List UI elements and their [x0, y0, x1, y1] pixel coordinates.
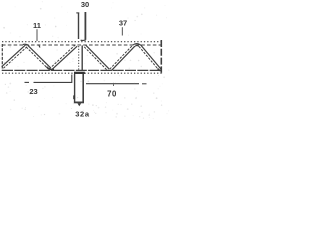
leader line for 37: [121, 27, 123, 35]
center bearing plate: [74, 72, 85, 74]
center vertical member solid edge: [81, 45, 83, 70]
bottom node blob: [47, 67, 55, 70]
leader line for 70: [86, 83, 139, 85]
load ram 30 right bar: [84, 12, 86, 40]
left end post: [1, 44, 3, 71]
left apex connector: [23, 44, 29, 45]
diagonal W2 falling from left apex (double line): [28, 45, 50, 67]
diagonal D3 (double line): [51, 46, 77, 70]
top chord dotted line: [2, 41, 161, 43]
leader tick for 11 below chord: [39, 45, 41, 48]
support rod 32a bottom edge: [74, 101, 84, 103]
svg-text:37: 37: [119, 19, 127, 28]
svg-text:11: 11: [33, 21, 41, 30]
leader tick for 70: [113, 84, 115, 86]
leader line for 23 main: [34, 75, 72, 83]
load ram 30 left bar: [78, 13, 80, 40]
scan speckle noise: [0, 1, 169, 119]
leader line for 70 end dash: [142, 83, 147, 85]
bottom right junction blob: [158, 69, 162, 71]
support rod 32a left edge: [74, 74, 76, 103]
diagonal D5 (double line): [111, 46, 135, 70]
load ram 30 bottom hook: [81, 39, 86, 42]
leader line for 11: [36, 29, 38, 41]
support rod 32a right edge: [82, 74, 84, 103]
support rod 32a bottom point: [77, 103, 81, 106]
diagonal D4 (double line): [86, 45, 109, 69]
bottom chord solid line: [2, 69, 161, 71]
bottom chord dotted line: [2, 72, 162, 74]
support rod 32a left bump: [73, 95, 75, 99]
center vertical member dotted edge: [78, 46, 80, 70]
top chord dashed line: [2, 44, 161, 46]
leader line for 23 short dash: [25, 81, 30, 83]
right end post: [160, 40, 162, 73]
top apex curve (double): [133, 44, 140, 45]
svg-text:30: 30: [81, 0, 89, 9]
diagonal W1 rising from bottom-left corner (double line): [2, 45, 26, 66]
load ram 30 left bar serif: [76, 12, 79, 14]
svg-text:70: 70: [107, 90, 117, 99]
diagonal D6 (double line): [141, 45, 162, 70]
